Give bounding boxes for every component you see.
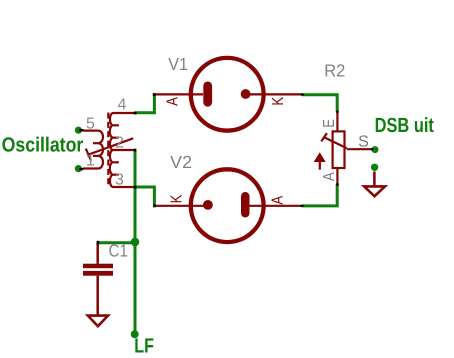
svg-text:4: 4 <box>118 97 127 114</box>
svg-text:K: K <box>270 97 287 106</box>
svg-text:DSB uit: DSB uit <box>375 114 434 137</box>
svg-text:Oscillator: Oscillator <box>2 134 84 157</box>
svg-text:5: 5 <box>86 116 95 133</box>
svg-text:LF: LF <box>134 335 154 358</box>
svg-text:1: 1 <box>86 153 95 170</box>
svg-text:R2: R2 <box>324 61 345 81</box>
svg-text:A: A <box>270 196 287 205</box>
svg-text:S: S <box>358 134 369 151</box>
svg-text:E: E <box>321 119 338 128</box>
svg-text:3: 3 <box>115 172 124 189</box>
svg-text:C1: C1 <box>109 241 128 261</box>
svg-text:K: K <box>169 194 186 203</box>
svg-text:V2: V2 <box>170 152 192 172</box>
svg-text:V1: V1 <box>168 54 188 74</box>
svg-text:A: A <box>321 172 338 181</box>
svg-text:2: 2 <box>115 135 124 152</box>
svg-text:A: A <box>164 97 181 106</box>
